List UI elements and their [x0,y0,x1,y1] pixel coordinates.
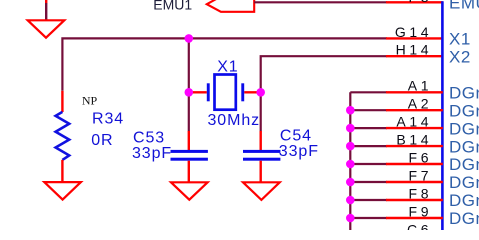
wire EMU1 net [254,1,387,3]
pin G14 stub [386,37,443,39]
ground under C53 [171,182,208,199]
wire to top-left ground [45,3,47,21]
pin A2 stub [386,109,443,111]
pin F6 stub [386,163,443,165]
svg-text:A14: A14 [396,114,432,130]
svg-text:30Mhz: 30Mhz [208,112,261,129]
ground under R34 [44,182,81,200]
svg-text:X1: X1 [449,30,471,49]
svg-text:F6: F6 [409,149,433,165]
pin A1 stub [386,91,443,93]
svg-text:DGnd: DGnd [449,155,479,174]
crystal X1 [189,91,207,93]
wire row A1 [350,91,387,93]
svg-text:DGnd: DGnd [449,137,479,156]
svg-text:DGnd: DGnd [449,84,479,103]
pin H14 stub [386,55,443,57]
svg-text:A2: A2 [408,96,432,112]
svg-text:R34: R34 [92,111,124,128]
wire row F8 [350,199,387,201]
pin F7 stub [386,181,443,183]
off-page port EMU1 [207,0,254,12]
svg-text:33pF: 33pF [132,145,172,162]
wire row F9 [350,217,387,219]
node junction F8 [346,196,355,205]
node crystal pin2 junction [256,88,265,97]
pin F8 stub [386,199,443,201]
svg-text:F8: F8 [409,0,433,5]
node junction A14 [346,124,355,133]
ground under C54 [243,182,280,200]
IC U1 body edge [441,1,444,230]
svg-text:X1: X1 [217,59,238,76]
node junction B14 [346,142,355,151]
svg-text:F8: F8 [409,185,433,201]
wire X1 net (main horizontal + drop to R34) [62,38,387,90]
pin B14 stub [386,145,443,147]
capacitor C54 [260,131,262,150]
node crystal pin1 junction [185,88,194,97]
svg-text:DGnd: DGnd [449,101,479,120]
wire row F6 [350,163,387,165]
wire row A2 [350,109,387,111]
svg-text:DGnd: DGnd [449,209,479,228]
svg-text:DGnd: DGnd [449,119,479,138]
node junction F9 [346,214,355,223]
svg-text:X2: X2 [449,47,471,66]
node junction F6 [346,160,355,169]
svg-text:B14: B14 [396,132,432,148]
wire X1 net vertical drop to C53 [188,38,190,131]
svg-text:DGnd: DGnd [449,173,479,192]
ground (top-left) lead stub [45,0,47,3]
svg-text:G14: G14 [395,24,432,40]
svg-text:C6: C6 [407,221,432,230]
ground GND1 (top-left) [28,20,65,37]
wire row A14 [350,127,387,129]
wire X2 net (corner to H14) [261,56,387,131]
svg-text:F9: F9 [409,203,433,219]
svg-text:DGnd: DGnd [449,227,479,230]
node junction F7 [346,178,355,187]
svg-text:A1: A1 [408,78,432,94]
svg-text:NP: NP [82,93,98,107]
node junction on X1 net [185,34,194,43]
svg-text:H14: H14 [396,42,432,58]
pin E8 stub (top) [386,1,443,3]
capacitor C53 [188,131,190,150]
svg-text:EMU1: EMU1 [449,0,479,12]
wire row F7 [350,181,387,183]
pin A14 stub [386,127,443,129]
resistor R34 [61,91,63,112]
svg-text:DGnd: DGnd [449,191,479,210]
wire row B14 [350,145,387,147]
pin F9 stub [386,217,443,219]
svg-text:EMU1: EMU1 [153,0,192,13]
node junction A2 [346,106,355,115]
svg-text:0R: 0R [91,132,113,149]
svg-text:F7: F7 [409,167,433,183]
svg-text:33pF: 33pF [279,143,319,160]
wire DGnd bus vertical [349,92,351,230]
